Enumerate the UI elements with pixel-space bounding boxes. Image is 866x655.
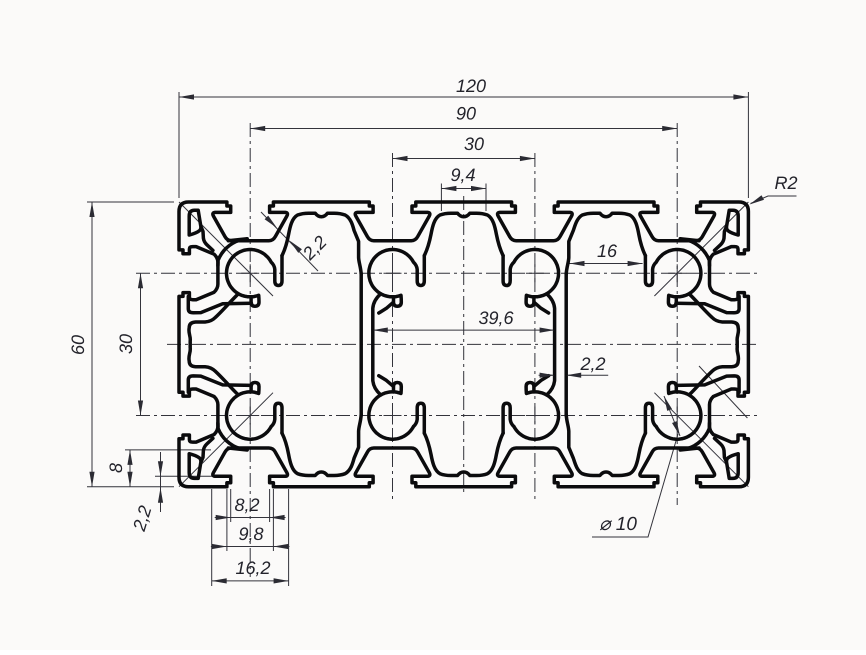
- ext 9,4 R: [485, 184, 487, 212]
- cell1 upper wall line: [188, 296, 251, 312]
- arrowhead 9,8 L: [212, 544, 227, 549]
- screw channel at (105,45): [645, 383, 701, 440]
- bell bottom x=60: [424, 433, 503, 475]
- svg-text:2,2: 2,2: [579, 354, 605, 374]
- arrowhead 2,2 bl T: [158, 461, 163, 476]
- arrowhead 8,2 L: [216, 515, 231, 520]
- svg-text:30: 30: [116, 334, 136, 354]
- ext 60 B: [87, 486, 174, 488]
- diagonal segment right side: [699, 366, 747, 418]
- dim line 39,6: [373, 329, 555, 331]
- web2 outer face: [564, 274, 568, 416]
- arrowhead 16,2 R: [274, 578, 289, 583]
- arrowhead 30 top R: [520, 156, 535, 161]
- cell3 upper wall line: [676, 296, 739, 312]
- svg-text:60: 60: [68, 335, 88, 355]
- arrowhead 90 L: [250, 126, 265, 131]
- arrowhead 30 top L: [393, 156, 408, 161]
- bell top x=30: [282, 213, 361, 274]
- ext 16,2 R: [288, 489, 290, 586]
- screw channel at (105,15): [645, 250, 701, 307]
- dim dia10 line: [664, 396, 680, 436]
- leader R2: [751, 196, 797, 204]
- centerline row 15: [136, 272, 757, 274]
- corner pocket LT: [189, 210, 213, 250]
- leader dia10: [592, 434, 678, 537]
- corner pocket LB: [189, 438, 213, 478]
- ext 9,8 R: [272, 489, 274, 551]
- dim line 9,4: [441, 188, 486, 190]
- svg-text:16: 16: [597, 241, 618, 261]
- dim line 9,8: [227, 546, 274, 548]
- arrowhead dia10 T: [664, 396, 672, 411]
- arrowhead 60 B: [89, 472, 94, 487]
- svg-text:90: 90: [456, 104, 476, 124]
- center cross (45,45): [384, 407, 402, 425]
- dim line 16: [570, 263, 643, 265]
- screw channel at (75,45): [503, 383, 558, 440]
- web2 inner face: [547, 294, 555, 395]
- cell1 lower wall line: [188, 376, 251, 392]
- arrowhead 120 L: [179, 94, 194, 99]
- center cross (105,15): [668, 264, 686, 282]
- dim line 30 left: [140, 273, 142, 415]
- bell bottom x=90: [566, 415, 645, 476]
- arrowhead 30 left T: [138, 273, 143, 288]
- screw channel at (45,45): [369, 383, 424, 440]
- ext 120 R: [747, 92, 749, 198]
- corner diagonal: [654, 202, 748, 296]
- arrowhead 2,2 bl B: [158, 488, 163, 503]
- arrowhead 30 left B: [138, 401, 143, 416]
- arrowhead 2,2 tl B: [290, 241, 302, 253]
- boss outer wall at (15,15): [218, 239, 247, 266]
- cell3 lower wall line: [676, 376, 739, 392]
- ext 9,8 L: [226, 489, 228, 551]
- ext 16,2 L: [211, 489, 213, 586]
- screw channel at (15,15): [227, 250, 283, 307]
- ext 8: [125, 449, 211, 451]
- boss outer wall at (15,45): [218, 423, 247, 450]
- centerline col 105: [676, 123, 678, 505]
- arrowhead 9,4 L: [441, 186, 456, 191]
- dim 2,2 r tails: [539, 374, 609, 376]
- centerline row 30: [167, 343, 757, 345]
- arrowhead 8,2 R: [270, 515, 285, 520]
- screw channel at (15,45): [227, 383, 283, 440]
- ext 2,2 bl: [155, 475, 213, 477]
- center cross (15,15): [241, 264, 259, 282]
- svg-text:8: 8: [106, 463, 126, 473]
- dim line 2,2 bl: [160, 452, 162, 512]
- ext 8,2 L: [230, 489, 232, 522]
- svg-text:9,4: 9,4: [450, 165, 475, 185]
- boss outer wall at (105,45): [680, 423, 709, 450]
- dim tails 8,2: [215, 517, 286, 519]
- centerline mid vertical: [463, 196, 465, 493]
- center cross (75,15): [526, 264, 544, 282]
- centerline col 75: [534, 153, 536, 500]
- dim line 16,2: [212, 580, 289, 582]
- ext 60 T: [87, 201, 174, 203]
- web1 outer face: [359, 274, 363, 416]
- arrowhead 16,2 L: [212, 578, 227, 583]
- screw channel at (45,15): [369, 250, 424, 307]
- wall hook line at (75,15): [534, 303, 548, 313]
- cell3 right crescent chain: [690, 294, 739, 394]
- arrowhead 16 R: [628, 261, 643, 266]
- dim line 8,2: [231, 517, 270, 519]
- arrowhead 2,2 tl A: [265, 216, 277, 228]
- dim line 90: [250, 128, 677, 130]
- arrowhead 9,4 R: [471, 186, 486, 191]
- center cross (75,45): [526, 407, 544, 425]
- cell1 left crescent chain: [189, 294, 238, 394]
- svg-text:8,2: 8,2: [234, 495, 259, 515]
- svg-text:39,6: 39,6: [478, 308, 514, 328]
- arrowhead 120 R: [733, 94, 748, 99]
- corner pocket RT: [715, 210, 739, 250]
- dim line 30 top: [393, 158, 535, 160]
- arrowhead 8 T: [127, 450, 132, 465]
- arrowhead 8 B: [127, 472, 132, 487]
- centerline col 45: [392, 153, 394, 500]
- arrowhead 16 L: [570, 261, 585, 266]
- svg-text:120: 120: [456, 76, 486, 96]
- arrowhead 90 R: [662, 126, 677, 131]
- corner pocket RB: [715, 438, 739, 478]
- centerline col 15: [249, 123, 251, 577]
- corner diagonal: [654, 393, 748, 487]
- wall hook line at (75,45): [534, 376, 548, 386]
- bell top x=60: [424, 213, 503, 255]
- center cross (105,45): [668, 407, 686, 425]
- wall hook line at (45,45): [379, 376, 393, 386]
- corner diagonal: [179, 202, 273, 296]
- dim line 8: [129, 450, 131, 487]
- svg-text:⌀ 10: ⌀ 10: [599, 514, 637, 535]
- outer contour of profile: [179, 202, 748, 487]
- svg-text:9,8: 9,8: [238, 524, 263, 544]
- dim tails 9,8: [211, 546, 290, 548]
- bell bottom x=30: [282, 415, 361, 476]
- arrowhead 9,8 R: [273, 544, 288, 549]
- svg-text:16,2: 16,2: [235, 558, 270, 578]
- ext 120 L: [178, 92, 180, 198]
- screw channel at (75,15): [503, 250, 558, 307]
- arrowhead 39,6 L: [373, 328, 388, 333]
- ext 8,2 R: [269, 489, 271, 522]
- center cross (15,45): [241, 407, 259, 425]
- wall hook line at (45,15): [379, 303, 393, 313]
- arrowhead 2,2 r R: [566, 373, 581, 378]
- arrowhead R2: [750, 195, 765, 204]
- corner diagonal: [179, 393, 273, 487]
- dim 2,2 tl leader: [261, 212, 318, 271]
- web1 inner face: [373, 294, 381, 395]
- arrowhead 39,6 R: [540, 328, 555, 333]
- svg-text:R2: R2: [774, 173, 797, 193]
- boss outer wall at (105,15): [680, 239, 709, 266]
- center cross (45,15): [384, 264, 402, 282]
- dim line 120: [179, 96, 748, 98]
- ext 9,4 L: [440, 184, 442, 212]
- arrowhead 60 T: [89, 202, 94, 217]
- arrowhead dia10 B: [672, 421, 680, 436]
- bell top x=90: [566, 213, 645, 274]
- dim line 60: [91, 202, 93, 487]
- arrowhead 2,2 r L: [540, 373, 555, 378]
- svg-text:30: 30: [464, 134, 484, 154]
- centerline row 45: [136, 415, 757, 417]
